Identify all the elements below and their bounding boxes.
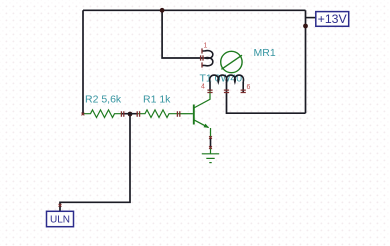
svg-text:ULN: ULN	[50, 214, 70, 225]
wire from R1/R2 junction down and left to ULN port	[60, 114, 130, 211]
label T1 value text	[200, 73, 243, 85]
pin ticks T1 primary centre pin	[201, 55, 203, 60]
svg-text:1: 1	[204, 43, 208, 50]
transistor Q1 base lead	[179, 113, 193, 115]
wire stub to +13V port	[306, 17, 316, 19]
junction dot on top rail	[160, 8, 165, 13]
junction dot on +13V rail	[303, 24, 308, 29]
wire left rail down to R2	[82, 10, 84, 113]
pin number 4	[201, 84, 205, 91]
svg-text:4: 4	[201, 84, 205, 91]
transistor Q1 collector lead	[194, 91, 210, 108]
label R2 5,6k	[85, 94, 122, 106]
wire bottom right horizontal to T1 secondary centre tap	[227, 82, 306, 113]
resistor R1	[138, 110, 179, 118]
wire right rail from top to bottom-right corner	[305, 10, 307, 113]
wire top rail	[83, 9, 306, 11]
pin ticks T1 secondary pin 6 tap	[241, 90, 246, 92]
svg-text:+13V: +13V	[318, 12, 348, 26]
label MR1	[254, 47, 276, 59]
svg-text:R1 1k: R1 1k	[143, 94, 171, 106]
wire from T1 secondary left tap down to Q1 collector	[209, 82, 211, 91]
pin ticks R1 right / Q1 base	[177, 111, 179, 116]
pin number 1	[204, 43, 208, 50]
wire from Q1 emitter to ground	[210, 138, 212, 148]
ground	[202, 148, 219, 162]
resistor R2	[83, 110, 122, 118]
pin tick T1 primary pin 1	[201, 48, 203, 53]
wire branch from top rail down to T1 primary centre tap	[162, 10, 202, 58]
pin tick Q1 emitter	[209, 136, 212, 139]
svg-text:R2 5,6k: R2 5,6k	[85, 94, 122, 106]
pin tick ULN port	[59, 204, 62, 207]
wire R2 to R1 through junction	[122, 113, 138, 115]
pin tick T1 primary bottom pin	[201, 62, 203, 67]
transformer T1 primary coil	[202, 51, 213, 66]
pin tick R2 left	[82, 113, 85, 116]
pin ticks R2 right	[121, 111, 123, 116]
port +13V	[316, 12, 349, 27]
pin ticks R1 left	[137, 111, 139, 116]
pin tick ground	[209, 146, 212, 149]
junction dot between R2 and R1	[128, 112, 133, 117]
svg-text:MR1: MR1	[254, 47, 276, 59]
label R1 1k	[143, 94, 171, 106]
svg-text:6: 6	[247, 84, 251, 91]
transistor Q1 body bar	[193, 105, 195, 125]
pin ticks T1 secondary pin 4 tap	[207, 90, 212, 92]
transistor Q1 emitter lead with arrow	[194, 120, 211, 138]
pin ticks T1 secondary centre tap	[224, 90, 229, 92]
transformer T1 secondary coil	[210, 75, 244, 92]
pin number 6	[247, 84, 251, 91]
port ULN	[47, 211, 74, 226]
motor MR1	[221, 51, 242, 72]
